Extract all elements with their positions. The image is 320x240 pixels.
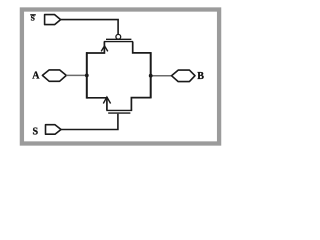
node B bus (right vertical): [150, 52, 152, 98]
node A bus (left vertical): [86, 52, 88, 98]
Q2 source arrow: [103, 97, 110, 104]
Q1 source arrow: [101, 46, 108, 52]
bubble on PMOS gate: [116, 34, 121, 39]
Q1 right terminal: [133, 42, 151, 53]
transistor Q2 NMOS channel: [106, 109, 132, 111]
svg-text:B: B: [197, 71, 204, 82]
transistor Q1 PMOS gate plate: [106, 38, 131, 40]
wire S-bar to PMOS gate: [61, 20, 119, 35]
transistor Q1 PMOS channel: [104, 41, 133, 43]
port pin S-bar: [45, 15, 61, 25]
port pin S: [46, 125, 62, 135]
wire B from bus: [151, 75, 172, 77]
junction B: [149, 74, 153, 78]
svg-text:S: S: [33, 127, 39, 138]
Q2 right terminal: [131, 98, 150, 111]
port pin B: [172, 70, 196, 82]
wire NMOS gate to S: [61, 114, 118, 130]
transistor Q2 NMOS gate plate: [108, 112, 130, 114]
wire A to bus: [66, 74, 87, 76]
port pin A: [42, 70, 66, 81]
Q1 left terminal: [86, 42, 104, 53]
junction A: [85, 74, 89, 78]
transistor Q2 NMOS left terminal: [87, 98, 107, 110]
label S-bar: [30, 14, 36, 23]
svg-text:A: A: [32, 71, 40, 82]
